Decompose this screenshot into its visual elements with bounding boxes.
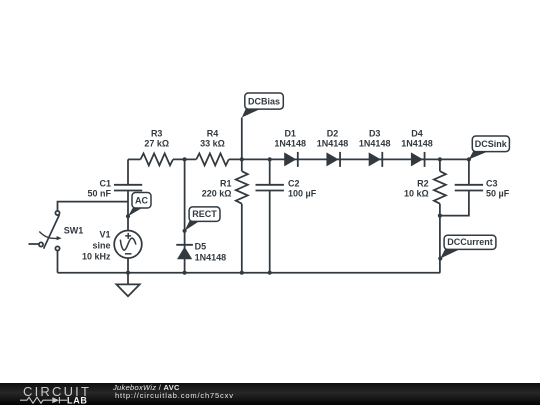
footer logo CircuitLab — [0, 383, 100, 405]
wire C3 branch — [468, 159, 470, 184]
svg-text:AC: AC — [135, 195, 148, 205]
svg-text:1N4148: 1N4148 — [195, 252, 227, 262]
svg-text:50 nF: 50 nF — [87, 189, 111, 199]
AC source V1 — [114, 231, 142, 259]
svg-text:10 kHz: 10 kHz — [82, 252, 111, 262]
junction node C2 top — [268, 157, 272, 161]
wire switch bottom to rail — [57, 251, 59, 273]
flag DCCurrent — [438, 235, 496, 260]
svg-text:R4: R4 — [207, 128, 219, 138]
wire D5 branch — [184, 159, 186, 272]
junction node R2 C3 bottom — [438, 214, 442, 218]
svg-text:D5: D5 — [195, 241, 207, 251]
wire between R3 and R4 — [173, 158, 196, 160]
wire C1 branch down from rail — [127, 159, 129, 184]
resistor R2 — [434, 171, 446, 204]
resistor R4 — [196, 153, 229, 165]
wire R2 to junction — [439, 204, 441, 273]
footer url text — [115, 391, 234, 400]
svg-text:D4: D4 — [411, 128, 423, 138]
resistor R3 — [141, 153, 174, 165]
diode D1 — [284, 152, 298, 167]
wire top rail right segment through diodes — [229, 158, 469, 160]
svg-text:1N4148: 1N4148 — [274, 138, 306, 148]
wire C3 bottom L to R2 — [440, 191, 469, 216]
wire C2 to bottom rail — [269, 191, 271, 273]
svg-text:sine: sine — [92, 241, 110, 251]
junction node DCBias R1 — [240, 157, 244, 161]
svg-text:R3: R3 — [151, 128, 163, 138]
wire R1 to bottom rail — [241, 204, 243, 273]
junction node D5 bottom rail — [183, 271, 187, 275]
footer bar — [0, 383, 540, 405]
diode D5 — [176, 245, 193, 259]
wire C2 branch — [269, 159, 271, 184]
svg-text:R2: R2 — [417, 178, 429, 188]
svg-text:50 µF: 50 µF — [486, 189, 510, 199]
resistor R1 — [236, 171, 248, 204]
wire R2 branch top — [439, 159, 441, 171]
flag DCBias — [242, 93, 283, 118]
footer title text — [113, 383, 180, 392]
svg-text:1N4148: 1N4148 — [317, 138, 349, 148]
capacitor C3 — [455, 185, 483, 191]
junction node R1 bottom rail — [240, 271, 244, 275]
svg-text:SW1: SW1 — [64, 225, 84, 235]
switch SW1 — [29, 211, 62, 251]
junction node D4 R2 — [438, 157, 442, 161]
svg-text:100 µF: 100 µF — [288, 189, 317, 199]
diode D3 — [369, 152, 383, 167]
svg-text:DCBias: DCBias — [248, 96, 280, 106]
svg-text:D3: D3 — [369, 128, 381, 138]
flag RECT — [183, 207, 221, 233]
junction node V1 bottom rail — [126, 271, 130, 275]
flag DCSink — [467, 136, 510, 161]
svg-text:R1: R1 — [220, 178, 232, 188]
svg-text:V1: V1 — [99, 230, 110, 240]
wire R1 DCBias branch — [241, 118, 243, 172]
capacitor C2 — [256, 185, 284, 191]
diode D2 — [326, 152, 340, 167]
junction node R3-R4-D5 — [183, 157, 187, 161]
svg-text:DCSink: DCSink — [475, 139, 508, 149]
wire C1 to V1 — [127, 191, 129, 231]
ground — [116, 273, 139, 297]
svg-text:D2: D2 — [327, 128, 339, 138]
svg-text:DCCurrent: DCCurrent — [447, 237, 493, 247]
capacitor C1 — [114, 185, 142, 191]
svg-text:C1: C1 — [99, 178, 111, 188]
svg-text:10 kΩ: 10 kΩ — [404, 189, 429, 199]
svg-text:C3: C3 — [486, 178, 498, 188]
junction node C2 bottom rail — [268, 271, 272, 275]
svg-text:27 kΩ: 27 kΩ — [144, 138, 169, 148]
flag AC — [126, 193, 151, 219]
wire bottom rail — [58, 272, 441, 274]
wire switch horizontal — [58, 202, 129, 211]
svg-text:220 kΩ: 220 kΩ — [202, 189, 232, 199]
svg-text:D1: D1 — [284, 128, 296, 138]
svg-text:C2: C2 — [288, 178, 300, 188]
wire top rail left segment — [128, 158, 141, 160]
svg-text:33 kΩ: 33 kΩ — [200, 138, 225, 148]
svg-text:RECT: RECT — [192, 209, 217, 219]
diode D4 — [411, 152, 425, 167]
wire V1 to bottom rail — [127, 258, 129, 273]
svg-text:LAB: LAB — [67, 395, 88, 405]
svg-text:1N4148: 1N4148 — [359, 138, 391, 148]
svg-text:1N4148: 1N4148 — [401, 138, 433, 148]
